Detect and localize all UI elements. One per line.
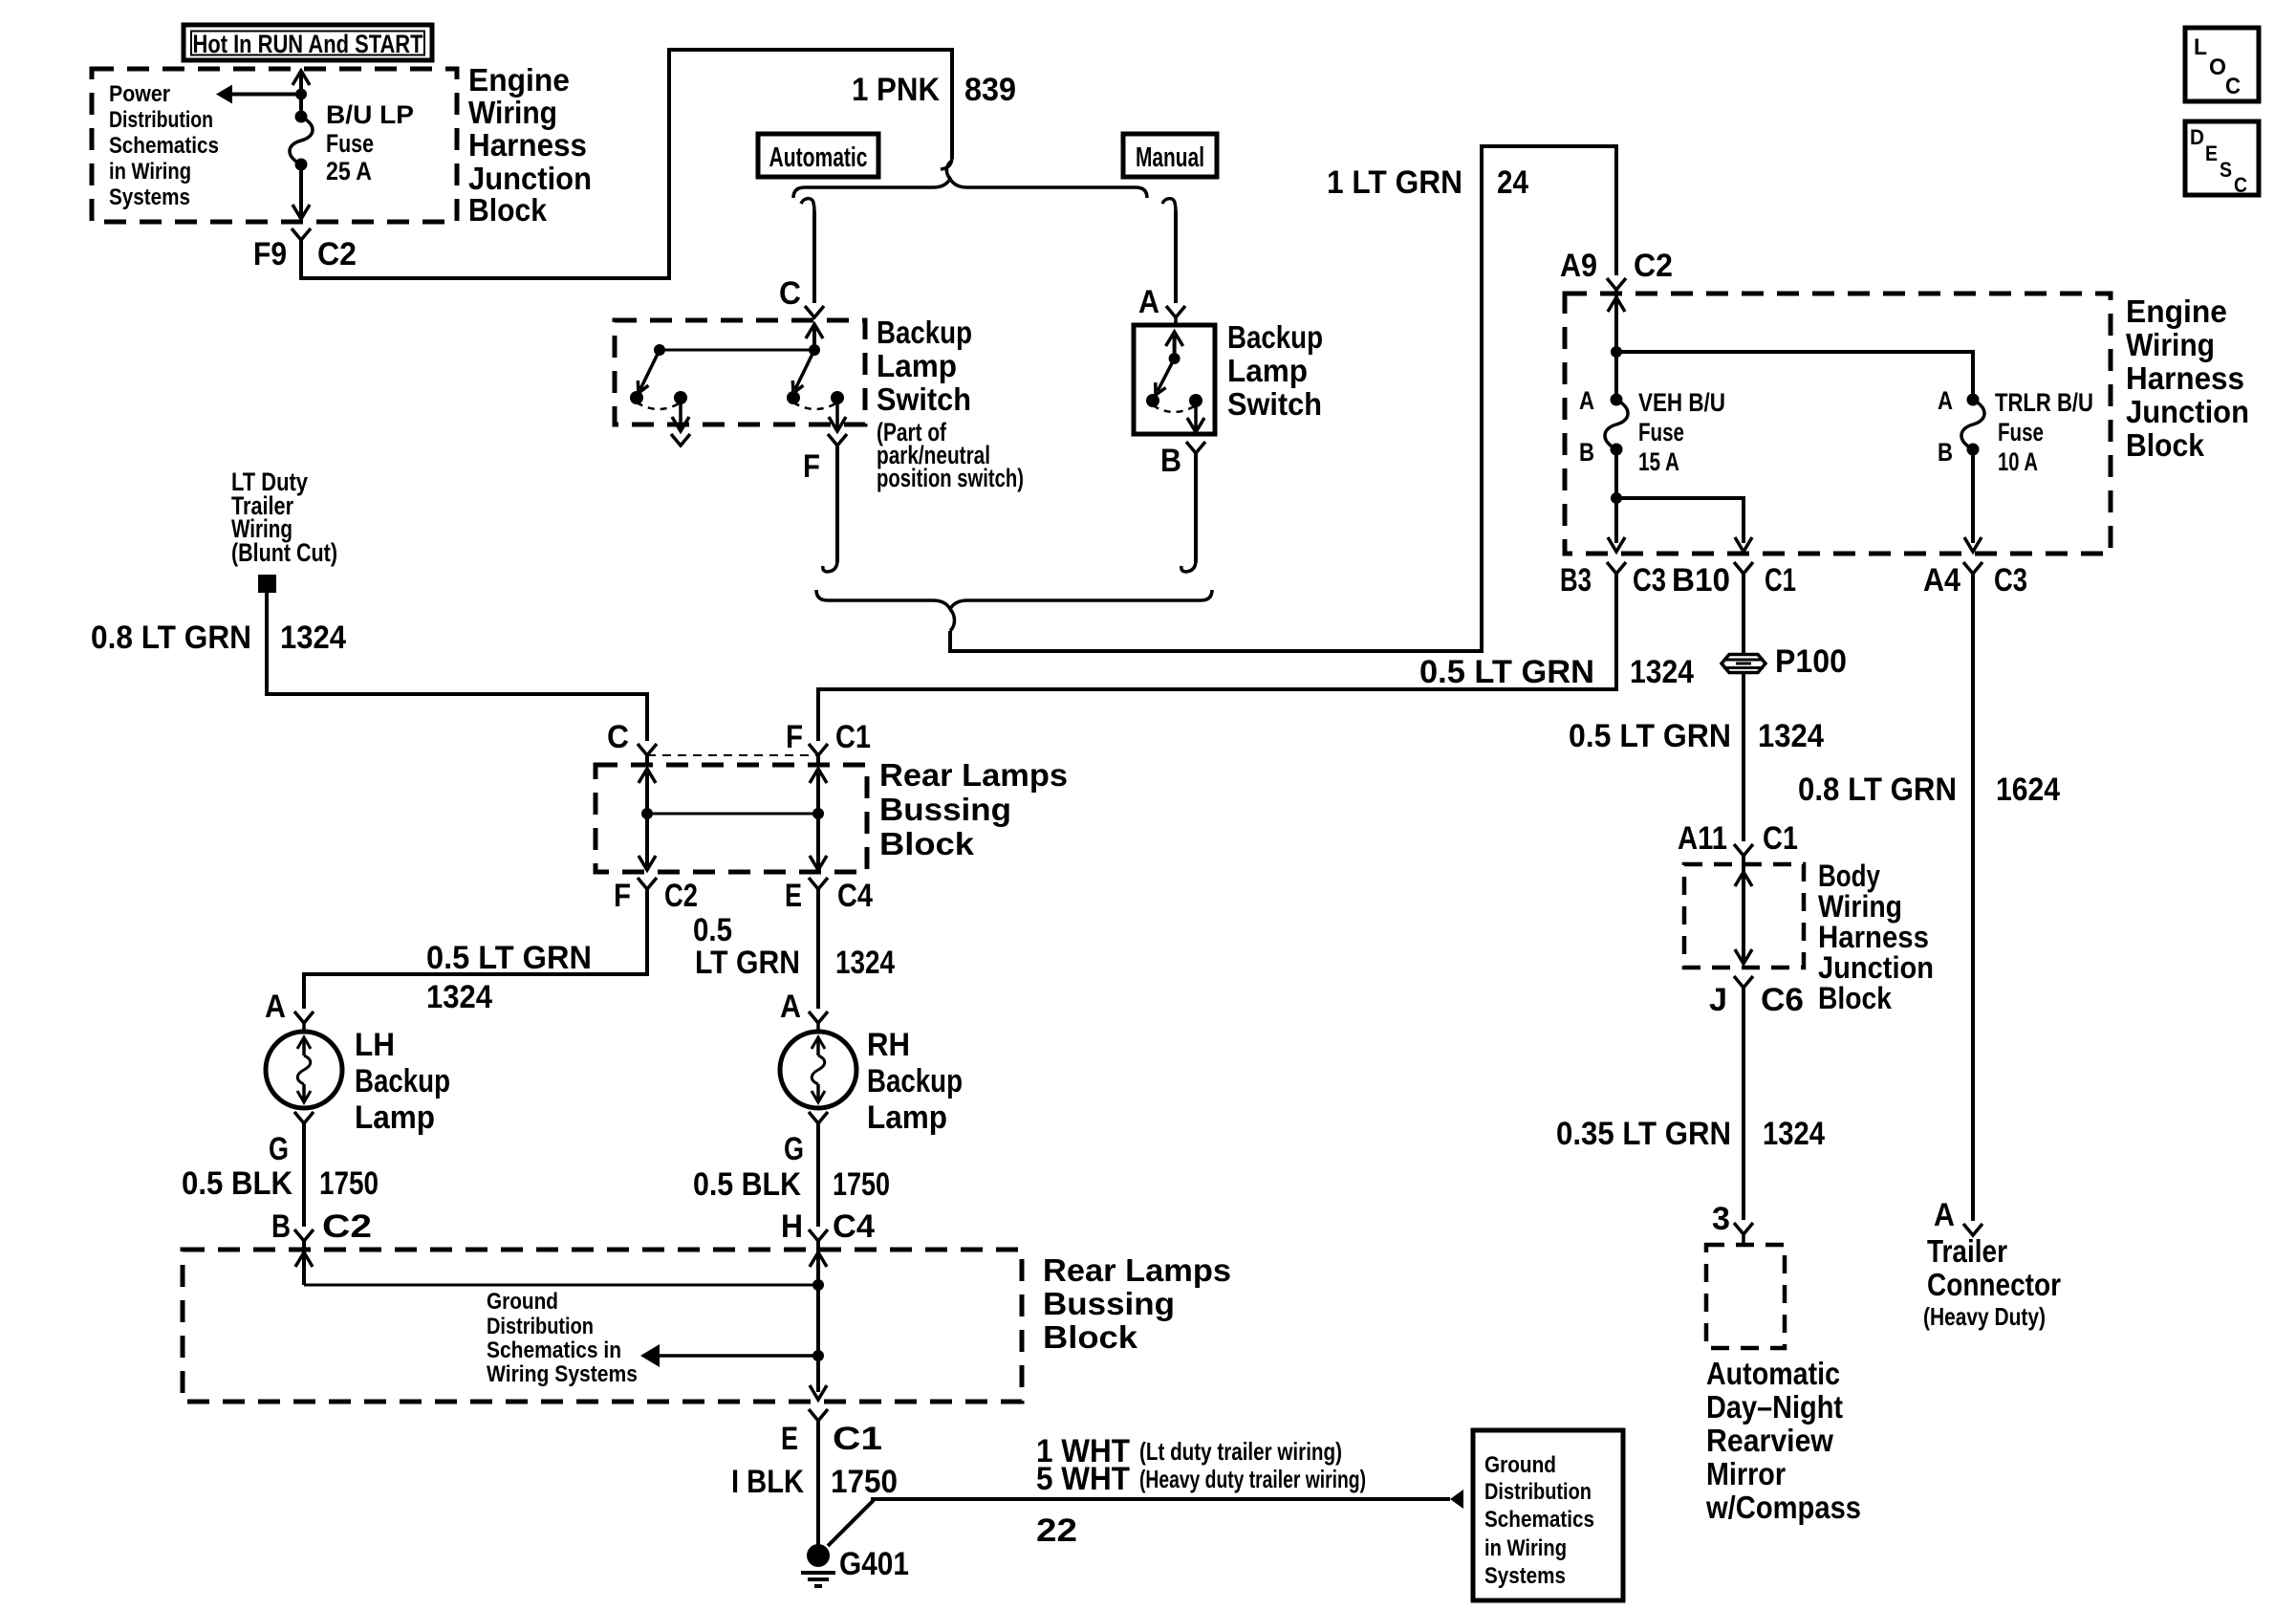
svg-text:Junction: Junction [1818,950,1934,985]
node B10 branch [1611,492,1622,504]
wire 0.5 LT GRN 1324 to LH lamp [304,889,647,1009]
svg-text:Wiring: Wiring [1818,889,1902,924]
svg-text:0.5 LT GRN: 0.5 LT GRN [1419,654,1594,690]
svg-text:A: A [1934,1197,1955,1233]
svg-text:Harness: Harness [468,127,587,163]
svg-text:G: G [784,1131,804,1167]
svg-text:Harness: Harness [1818,920,1929,954]
svg-text:Rear Lamps: Rear Lamps [1043,1252,1231,1288]
svg-text:25 A: 25 A [326,157,372,185]
power feed box 'Hot In RUN And START' [184,25,432,60]
DESC reference box [2185,121,2259,195]
wire to B10 output [1616,498,1744,543]
connector A9 C2 [1607,278,1626,290]
connector F C2 [638,878,657,889]
svg-text:C2: C2 [1634,248,1673,284]
svg-text:Backup: Backup [867,1063,963,1099]
svg-text:0.5 LT GRN: 0.5 LT GRN [1569,718,1731,754]
svg-text:E: E [785,878,802,914]
svg-text:Schematics: Schematics [109,133,219,159]
LOC reference box [2185,28,2259,101]
connector E C4 [809,878,828,889]
svg-text:Schematics in: Schematics in [487,1338,621,1363]
wire to TRLR fuse [1616,352,1973,400]
connector H C4 [809,1229,828,1241]
svg-text:LH: LH [355,1027,395,1063]
tag box Manual [1123,134,1217,177]
svg-text:C2: C2 [317,236,357,272]
wire I BLK 1750 to ground [816,1421,820,1545]
ground bus H side [816,1241,820,1285]
svg-text:F: F [803,448,820,485]
connector J C6 [1734,976,1753,988]
bussing bus C side [645,755,649,765]
svg-text:1 LT GRN: 1 LT GRN [1327,164,1462,201]
svg-text:LT GRN: LT GRN [695,945,800,981]
ground internal bus [304,1284,818,1287]
connector E C1 [809,1409,828,1421]
connector A11 C1 [1734,844,1753,856]
svg-text:VEH B/U: VEH B/U [1638,388,1725,417]
svg-text:Automatic: Automatic [769,142,868,173]
svg-text:C4: C4 [837,878,873,914]
wire 0.8 LT GRN 1324 (blunt cut to bussing block pin C) [267,593,647,741]
wire 0.5 LT GRN 1324 (B3 to bussing block pin F) [818,574,1616,741]
body wiring harness junction block [1684,864,1804,968]
svg-text:C: C [607,719,629,755]
svg-text:F9: F9 [253,236,287,272]
backup lamp switch (automatic, part of park/neutral position switch) [615,320,865,424]
svg-text:Power: Power [109,81,170,107]
wire VEH fuse output [1614,449,1618,543]
svg-text:Engine: Engine [468,62,570,98]
switch S1 arm [795,350,814,389]
svg-text:C: C [779,275,801,312]
svg-text:Backup: Backup [877,315,972,350]
svg-text:1 PNK: 1 PNK [852,72,940,108]
connector pin F (automatic switch) [828,434,847,446]
svg-text:A: A [1938,386,1953,415]
svg-text:Switch: Switch [877,381,971,417]
svg-text:A: A [265,989,286,1025]
svg-text:Lamp: Lamp [877,348,957,383]
svg-text:Lamp: Lamp [867,1099,947,1136]
svg-text:E: E [781,1421,798,1457]
node fuse feed split [1611,346,1622,358]
bussing bus F side [816,755,820,765]
switch S1 link bus [660,349,814,352]
svg-text:O: O [2209,54,2226,80]
connector pin 3 (mirror) [1734,1223,1753,1234]
svg-text:1324: 1324 [280,620,346,656]
svg-text:1750: 1750 [833,1166,890,1203]
connector pin B (manual switch) [1186,442,1205,453]
svg-text:1324: 1324 [835,945,895,981]
svg-text:839: 839 [964,72,1016,108]
svg-text:Block: Block [468,192,548,228]
connector C1 shared boundary [647,754,818,756]
svg-text:Rear Lamps: Rear Lamps [879,757,1068,793]
wire 0.8 LT GRN 1624 to trailer connector [1971,574,1975,1221]
connector pin F C1 (bussing block) [809,744,828,755]
connector pin G (RH lamp) [809,1112,828,1123]
wire 1 PNK 839 from F9/C2 to switches [301,50,952,278]
bussing output E C4 [816,814,820,866]
svg-text:Lamp: Lamp [355,1099,435,1136]
wire B10 to P100 [1742,574,1745,655]
svg-text:1324: 1324 [1758,718,1824,754]
manual switch output to pin B [1194,401,1198,429]
connector F9 C2 [292,228,311,240]
switch S1 common (right half) [812,327,816,350]
svg-text:B3: B3 [1560,562,1592,598]
connector pin C (bussing block) [638,744,657,755]
svg-text:(Heavy duty trailer wiring): (Heavy duty trailer wiring) [1139,1465,1366,1493]
backup lamp switch (manual) [1134,325,1215,434]
wire 0.5 BLK 1750 (RH) [816,1123,820,1227]
svg-text:Harness: Harness [2126,360,2244,396]
node ground ref branch [812,1350,824,1361]
switch S2 throw contact [674,391,687,404]
svg-text:1750: 1750 [831,1464,898,1500]
svg-text:(Lt duty trailer wiring): (Lt duty trailer wiring) [1139,1437,1342,1466]
svg-text:Wiring: Wiring [468,95,557,130]
wire TRLR fuse output [1971,449,1975,543]
svg-text:C2: C2 [322,1208,372,1245]
svg-text:Systems: Systems [1484,1563,1566,1589]
svg-text:(Blunt Cut): (Blunt Cut) [231,538,337,567]
svg-text:Wiring Systems: Wiring Systems [487,1361,638,1387]
svg-text:RH: RH [867,1027,910,1063]
connector A4 C3 [1963,562,1982,574]
svg-text:A9: A9 [1560,248,1597,284]
svg-text:B: B [1579,438,1594,467]
bussing output F C2 [645,814,649,866]
tag box Automatic [758,134,878,177]
svg-text:C: C [2234,173,2247,197]
wire 0.35 LT GRN 1324 to mirror [1742,988,1745,1220]
svg-text:B: B [1938,438,1953,467]
svg-text:3: 3 [1712,1201,1730,1237]
svg-text:Bussing: Bussing [1043,1286,1175,1321]
svg-text:C1: C1 [833,1421,882,1457]
bussing internal bus [647,813,818,816]
svg-text:Fuse: Fuse [1998,418,2044,446]
manual switch arm [1158,359,1175,391]
svg-text:A: A [1138,284,1159,320]
svg-text:C: C [2225,74,2241,99]
svg-text:Ground: Ground [487,1289,558,1315]
switch S1 output to pin F [835,398,839,428]
engine wiring harness junction block (right) [1565,294,2111,554]
splice bracket (automatic/manual options) [793,179,1147,198]
svg-text:I BLK: I BLK [731,1464,804,1500]
RH backup lamp [780,1032,856,1108]
svg-text:B: B [1160,443,1181,479]
svg-text:J: J [1709,982,1727,1018]
connector B3 C3 [1607,562,1626,574]
svg-text:H: H [781,1208,803,1245]
wire 22 to ground distribution schematics [828,1499,1450,1546]
connector pin C (automatic switch) [805,306,824,317]
fuse VEH B/U 15A [1611,394,1623,406]
svg-text:C3: C3 [1994,562,2027,598]
fuse TRLR B/U 10A [1967,394,1980,406]
svg-text:1750: 1750 [319,1165,379,1202]
svg-text:A: A [1579,386,1594,415]
wire 0.5 LT GRN 1324 to RH lamp [816,889,820,1009]
wire ground through [816,1285,820,1392]
svg-text:0.35 LT GRN: 0.35 LT GRN [1556,1116,1731,1152]
wire 0.5 LT GRN 1324 (P100 to body junction) [1742,672,1745,841]
LH backup lamp [266,1032,342,1108]
connector pin A (manual switch) [1166,306,1185,317]
automatic day-night rearview mirror w/compass [1742,1234,1745,1245]
svg-text:0.5 LT GRN: 0.5 LT GRN [426,940,592,976]
svg-text:C1: C1 [1765,562,1796,598]
svg-text:Distribution: Distribution [1484,1479,1592,1505]
ground bus B side [302,1241,306,1285]
wire from manual pin B [1194,453,1198,562]
svg-text:Block: Block [2126,427,2205,463]
wire from automatic pin F [835,446,839,562]
svg-text:1624: 1624 [1996,772,2060,808]
svg-text:Junction: Junction [468,161,592,196]
svg-text:Fuse: Fuse [326,129,374,158]
blunt cut terminal [258,575,276,593]
svg-text:Trailer: Trailer [1927,1233,2007,1269]
wire 0.5 BLK 1750 (LH) [302,1123,306,1227]
svg-text:10 A: 10 A [1998,447,2038,476]
svg-text:Hot In RUN And START: Hot In RUN And START [193,30,423,58]
wire fuse feed up-arrow [299,73,303,117]
svg-text:1324: 1324 [1763,1116,1825,1152]
svg-text:E: E [2205,141,2218,165]
svg-text:1324: 1324 [426,979,492,1015]
svg-text:Day–Night: Day–Night [1706,1389,1843,1425]
svg-text:Block: Block [1043,1319,1138,1355]
connector pin G (LH lamp) [294,1112,314,1123]
svg-text:w/Compass: w/Compass [1705,1490,1861,1525]
switch S2 common (left half) [654,344,665,356]
svg-text:S: S [2220,158,2232,182]
connector B10 C1 [1734,562,1753,574]
wire into junction block [1614,290,1618,400]
svg-text:1324: 1324 [1630,654,1694,690]
svg-text:Junction: Junction [2126,394,2249,429]
wire to ground distribution reference [660,1354,818,1358]
brace to automatic switch wire [801,199,814,211]
svg-text:Backup: Backup [1227,319,1323,355]
wire to automatic backup lamp switch pin C [812,211,816,303]
switch S2 arm [640,350,660,389]
svg-text:C1: C1 [1763,820,1798,857]
wire 1 LT GRN 24 to junction block [950,146,1616,651]
svg-text:B10: B10 [1672,562,1730,598]
svg-text:Systems: Systems [109,185,190,210]
svg-text:0.5 BLK: 0.5 BLK [693,1166,801,1203]
rear lamps bussing block (upper) [596,765,867,872]
svg-text:Distribution: Distribution [487,1314,594,1339]
svg-text:C1: C1 [835,719,871,755]
svg-text:C6: C6 [1761,982,1804,1018]
svg-text:C3: C3 [1633,562,1666,598]
rear lamps bussing block (lower) [183,1250,1022,1402]
splice bracket (switch outputs join) [816,590,1212,609]
svg-text:Lamp: Lamp [1227,353,1308,388]
svg-text:A4: A4 [1923,562,1960,598]
svg-text:0.8 LT GRN: 0.8 LT GRN [91,620,251,656]
svg-text:15 A: 15 A [1638,447,1679,476]
svg-text:A: A [780,989,801,1025]
svg-text:B: B [271,1208,291,1245]
svg-text:in Wiring: in Wiring [109,159,191,185]
svg-text:D: D [2190,125,2204,149]
svg-text:L: L [2194,34,2207,60]
svg-text:C4: C4 [833,1208,875,1245]
svg-text:C2: C2 [664,878,698,914]
node fuse feed junction [295,89,307,100]
svg-text:0.5 BLK: 0.5 BLK [182,1165,292,1202]
wire fuse output [299,164,303,216]
manual switch throw contact [1189,394,1202,407]
svg-text:Backup: Backup [355,1063,450,1099]
svg-text:0.8 LT GRN: 0.8 LT GRN [1798,772,1957,808]
ground G401 [807,1544,830,1567]
ground distribution schematics box (right) [1473,1430,1623,1600]
svg-text:Mirror: Mirror [1706,1456,1786,1491]
switch S1 throw contact [831,391,844,404]
connector pin (unused) below automatic switch [671,434,690,446]
engine wiring harness junction block (left, fuse box) [92,69,457,222]
svg-text:F: F [614,878,631,914]
svg-text:(Heavy Duty): (Heavy Duty) [1923,1302,2046,1331]
switch S2 output to unused pin [679,398,682,428]
svg-text:F: F [786,719,803,755]
svg-text:Engine: Engine [2126,294,2227,329]
fuse B/U LP 25A [295,111,308,123]
svg-text:position switch): position switch) [877,464,1024,492]
connector B C2 [294,1229,314,1241]
connector pin A (RH lamp) [809,1012,828,1023]
svg-text:22: 22 [1036,1512,1077,1549]
svg-text:Rearview: Rearview [1706,1423,1833,1458]
svg-text:Fuse: Fuse [1638,418,1684,446]
svg-text:Automatic: Automatic [1706,1356,1840,1391]
svg-text:A11: A11 [1678,820,1727,857]
svg-text:5 WHT: 5 WHT [1036,1461,1130,1497]
svg-text:Manual: Manual [1136,142,1204,173]
svg-text:Block: Block [1818,981,1892,1015]
svg-text:TRLR B/U: TRLR B/U [1995,388,2093,417]
brace to manual switch wire [1162,199,1176,211]
manual switch common [1173,336,1177,359]
svg-text:24: 24 [1497,164,1528,201]
svg-text:G401: G401 [839,1546,909,1582]
connector pin A (trailer connector) [1963,1224,1982,1235]
svg-text:0.5: 0.5 [693,912,732,948]
svg-text:Connector: Connector [1927,1267,2061,1302]
svg-text:B/U LP: B/U LP [326,100,414,129]
svg-text:Distribution: Distribution [109,107,213,133]
node ground bus junction [812,1279,824,1291]
wire through body junction block [1742,856,1745,964]
svg-text:Switch: Switch [1227,386,1322,422]
connector pin A (LH lamp) [294,1012,314,1023]
wire to manual backup lamp switch pin A [1174,211,1178,303]
svg-text:P100: P100 [1775,643,1847,680]
svg-text:Bussing: Bussing [879,792,1011,827]
svg-text:Ground: Ground [1484,1452,1556,1478]
svg-text:Schematics: Schematics [1484,1507,1594,1533]
svg-text:Wiring: Wiring [2126,327,2215,362]
svg-text:Block: Block [879,826,975,861]
pass-through grommet P100 [1722,655,1765,673]
svg-text:in Wiring: in Wiring [1484,1535,1567,1561]
svg-text:Body: Body [1818,859,1880,893]
svg-text:G: G [269,1131,289,1167]
wire to power distribution (arrow) [232,93,301,97]
